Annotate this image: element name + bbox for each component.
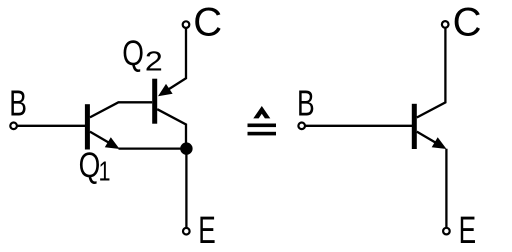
svg-text:Q: Q <box>79 146 101 185</box>
svg-text:2: 2 <box>145 45 163 76</box>
svg-text:E: E <box>198 210 216 252</box>
svg-text:Q: Q <box>122 34 144 73</box>
svg-text:C: C <box>453 1 482 45</box>
svg-text:B: B <box>297 83 315 124</box>
svg-text:E: E <box>459 210 477 252</box>
svg-text:1: 1 <box>99 155 111 186</box>
svg-text:C: C <box>193 1 222 45</box>
svg-text:B: B <box>9 83 27 124</box>
